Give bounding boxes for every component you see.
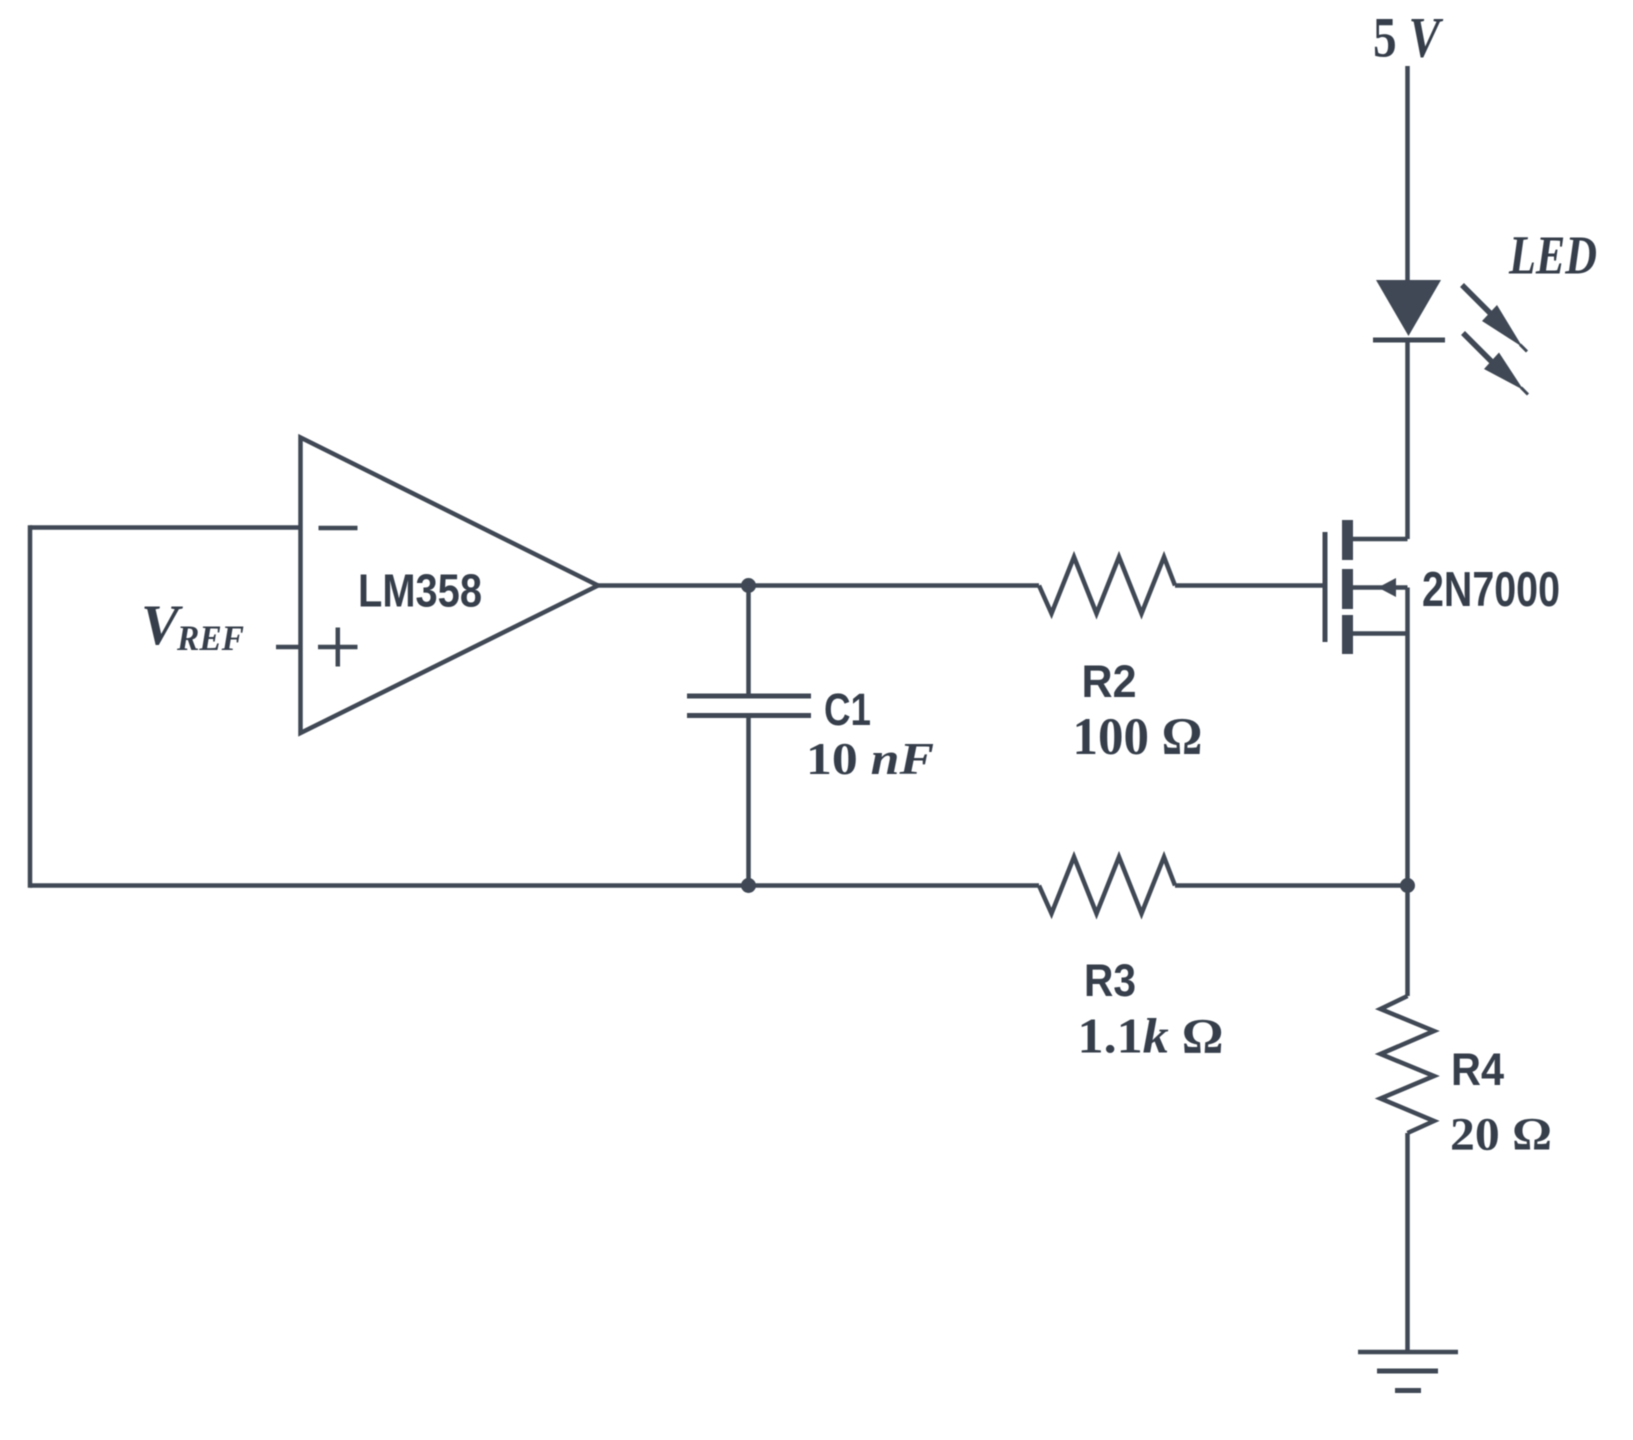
svg-text:C1: C1 (824, 684, 871, 735)
op-amp non-inverting input plus sign (318, 628, 358, 667)
wire R4 to ground (1405, 1133, 1410, 1352)
svg-text:R4: R4 (1451, 1044, 1504, 1095)
svg-text:5 V: 5 V (1373, 7, 1443, 70)
svg-text:20 Ω: 20 Ω (1450, 1109, 1552, 1161)
wire R3 to node A (1175, 883, 1408, 888)
svg-text:R2: R2 (1082, 656, 1137, 707)
capacitor C1 (687, 586, 811, 886)
wire plus input stub (276, 645, 300, 650)
wire feedback left vertical (28, 525, 33, 888)
svg-text:1.1k Ω: 1.1k Ω (1078, 1008, 1224, 1064)
wire R2 to gate (1175, 583, 1323, 588)
svg-text:R3: R3 (1084, 955, 1136, 1006)
node bottom junction (741, 878, 756, 893)
LED light arrow 1 (1462, 285, 1527, 352)
svg-text:LED: LED (1508, 225, 1597, 286)
svg-text:REF: REF (176, 618, 244, 658)
ground (1358, 1352, 1458, 1391)
wire 5V to LED anode (1405, 66, 1410, 281)
resistor R2 (1039, 557, 1175, 614)
resistor R4 (1381, 996, 1435, 1133)
node A junction (1400, 878, 1415, 893)
resistor R3 (1039, 857, 1175, 914)
op-amp inverting input minus sign (319, 526, 358, 531)
node output junction (741, 578, 756, 593)
wire feedback top rail to inverting input (30, 525, 300, 530)
diode LED (1373, 280, 1445, 340)
svg-text:10 nF: 10 nF (806, 733, 934, 784)
svg-text:LM358: LM358 (358, 565, 482, 617)
svg-text:2N7000: 2N7000 (1422, 563, 1560, 617)
wire bottom rail (30, 883, 1039, 888)
LED light arrow 2 (1463, 333, 1528, 395)
op-amp U1 LM358 (301, 438, 599, 734)
svg-text:100 Ω: 100 Ω (1073, 708, 1203, 766)
transistor Q1 2N7000 (1323, 520, 1408, 654)
wire source to node A (1405, 588, 1410, 997)
wire op-amp output (596, 583, 1039, 588)
wire LED cathode to drain (1405, 342, 1410, 539)
